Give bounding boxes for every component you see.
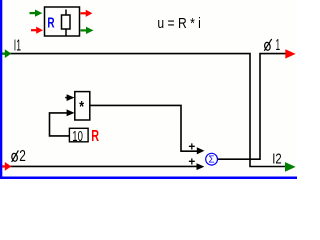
frame border left (blue) [0,0,2,179]
multiplier input pin bottom (triangle) [67,109,75,116]
wire I1 net: left edge right, down at x=250, right to I2 output [2,54,288,167]
svg-text:u = R * i: u = R * i [157,16,201,32]
svg-text:Σ: Σ [209,155,215,166]
svg-text:R: R [47,16,54,32]
resistor block icon R1 [45,7,80,36]
multiplier input pin top (triangle with stub) [65,94,74,101]
wire phi2 net: left edge to sum lower input [2,165,197,167]
sum block U2 (sigma circle) [206,153,218,165]
node phi2 label: drawn phi glyph + 2 [11,148,26,165]
node phi1 label: drawn phi glyph + 1 [264,37,280,54]
svg-text:1: 1 [276,37,281,54]
svg-text:10: 10 [72,129,83,145]
pin arrow left-top (green, into R block) [30,10,43,17]
sum block input pin top (triangle) [197,147,205,154]
node I2 output arrow (green) [285,162,296,172]
sum block input pin bottom (triangle) [197,163,205,170]
node phi1 output arrow (red) [285,49,295,58]
wire phi1 net: sum output right, up at x=260, right to phi1 output [218,54,289,160]
svg-text:I2: I2 [272,150,281,167]
multiplier block U1 [75,92,90,120]
wire multiplier output to sum upper input [90,105,197,151]
svg-text:I1: I1 [14,37,21,54]
wire constant 10 to multiplier lower input [50,113,70,136]
svg-text:2: 2 [19,148,26,165]
frame border bottom (blue) [0,177,297,180]
node I1 input arrow (green) [2,49,12,58]
pin arrow right-top (red, out of R block) [81,10,93,17]
resistor symbol body [62,15,71,29]
svg-text:R: R [91,128,99,145]
pin arrow right-bottom (green, out of R block) [81,27,94,34]
svg-text:*: * [79,99,84,116]
svg-text:+: + [188,140,195,154]
node phi2 input arrow (red) [2,162,12,171]
constant block 10 [69,128,88,145]
svg-text:+: + [188,154,195,168]
pin arrow left-bottom (red, into R block) [31,27,43,34]
